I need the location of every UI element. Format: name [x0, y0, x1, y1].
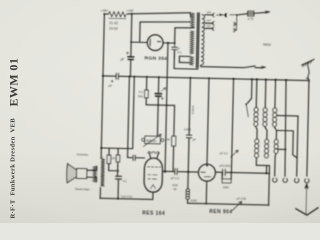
wire: L4a tap to terminal 3	[275, 116, 298, 177]
wire: switch drop	[247, 79, 252, 103]
capacitor C5 electrolytic	[157, 77, 160, 105]
V1 top neck	[149, 153, 158, 159]
voltage selector link plug	[233, 15, 236, 32]
wire: grid box drop	[156, 105, 159, 136]
resistor R4 box	[109, 148, 120, 171]
wire: left frame vertical	[100, 14, 104, 198]
node: bus junction at frame	[102, 75, 104, 77]
choke L1 winding	[186, 189, 190, 192]
wire: mains line 2 from transformer bottom	[201, 66, 244, 68]
wire: cathode drop V_cath	[173, 105, 176, 136]
wire: L4a lower tap link	[276, 130, 298, 157]
wire: L2b bottom to bus2 drop	[255, 158, 269, 205]
wire: grid leak legs	[222, 172, 231, 179]
wire: coil 1 drop	[255, 79, 258, 107]
speaker driver box	[76, 168, 87, 178]
socket contact 127	[212, 21, 214, 25]
node: junction dot right of R1	[131, 13, 133, 15]
paper shading overlay	[0, 150, 320, 223]
bottom bus left	[100, 198, 153, 199]
mains connector arrows	[216, 13, 236, 17]
wire: grid wire to tuning	[231, 172, 269, 175]
wire: V1 cathode to bottom bus	[152, 192, 154, 199]
coil L3b	[265, 139, 269, 144]
transformer T1 left winding (zigzag sections)	[191, 13, 195, 28]
capacitor C10 in choke feed	[186, 135, 192, 138]
V1 pin bumps	[148, 152, 159, 154]
node: junction dot at loopB leg	[174, 42, 176, 44]
bottom bus 2	[188, 203, 269, 205]
wire: mains line 1 with arrow	[254, 12, 266, 14]
speaker horn	[67, 164, 77, 183]
coil L4b	[274, 139, 278, 144]
wire: rectifier anode wire left	[131, 41, 147, 43]
U1 anode plate dash	[157, 41, 160, 43]
coil L3a	[263, 108, 267, 113]
U1 cathode bar	[149, 39, 151, 46]
V1 inner electrode marks	[148, 175, 158, 179]
fuse F1	[248, 11, 254, 16]
rail: cathode rail lower-left	[101, 147, 132, 150]
capacitor C4 series in bus	[116, 73, 118, 79]
terminal post 2	[283, 178, 287, 182]
coil L2a antenna coil	[254, 107, 258, 112]
node: junction dot V2 to rectifier wire	[130, 41, 132, 43]
wire: V2 vertical from R1 down to HT bus	[130, 14, 131, 77]
wire: inter-row links	[256, 127, 277, 140]
wire: L4b to terminal 1	[275, 154, 276, 176]
wire: V3 from bus to grid wire	[231, 79, 233, 173]
wire: speaker leads	[87, 166, 97, 182]
wire: rectifier anode wire right	[163, 42, 175, 44]
wire: middle vertical HT to anode rail	[165, 43, 168, 172]
value label under R1	[109, 17, 126, 19]
wire: loop A (filament loop)	[140, 12, 191, 44]
capacitor C9 grid cap vertical plates	[223, 169, 226, 175]
wave switch contact arm	[245, 103, 247, 105]
capacitor C7 grid coupling	[133, 155, 135, 160]
earth chevron	[296, 207, 318, 215]
capacitor C8 on anode rail	[175, 169, 177, 175]
wire: choke feed vertical	[188, 78, 191, 189]
wire: loop-B leg down and transformer bottom close	[174, 50, 198, 69]
variable cap arrow at bus2 with label	[232, 201, 242, 210]
wire: tap 127	[205, 22, 213, 24]
resistor R1 (anode feed, zigzag)	[108, 12, 126, 17]
antenna symbol	[302, 59, 314, 65]
V1 grid dashes	[147, 166, 161, 168]
transformer T1 core lines	[196, 13, 199, 68]
wire: terminal 2 long drop	[284, 80, 287, 176]
wire: anode rail	[162, 170, 198, 173]
coil L2b	[255, 139, 259, 144]
socket contact 110	[212, 27, 214, 31]
terminal post 3	[294, 179, 298, 183]
switch S1 mains	[244, 66, 262, 68]
capacitor C2 electrolytic in V2	[128, 57, 134, 60]
wire: coil 3 drop	[274, 80, 277, 108]
resistor R7 grid leak box	[222, 179, 231, 183]
detector tube V2 REN904 envelope	[198, 164, 215, 181]
resistor R6 grid box with pot arrow	[145, 136, 161, 144]
polarity + for C2	[126, 52, 128, 54]
coil L4a	[273, 108, 277, 113]
earth arrow into terminal 4	[304, 183, 308, 214]
wire: tap 110	[205, 27, 213, 29]
polarity + for C5	[161, 97, 163, 99]
rectifier tube U1 RGN354 envelope	[147, 35, 163, 51]
output transformer T2 secondary	[93, 166, 97, 182]
output tube V1 RES164 envelope	[144, 158, 163, 192]
socket contact 220	[212, 13, 214, 17]
wire: L4b link to terminal 2 stem	[278, 148, 286, 150]
wire: antenna vertical to terminal 4	[307, 81, 309, 177]
resistor R5 box	[117, 148, 120, 176]
wire: to fuse	[237, 13, 248, 15]
wire: coil 2 drop	[264, 80, 267, 108]
capacitor C3 on loop-B leg	[171, 43, 177, 58]
transformer T1 right winding (loops)	[201, 15, 205, 65]
capacitor C6	[115, 176, 121, 179]
output transformer T2 primary on frame	[100, 158, 104, 186]
V2 grid dash	[201, 172, 211, 177]
wire: top HT line with rise to transformer	[104, 11, 190, 16]
resistor R2 (50k) box	[145, 77, 148, 105]
arrow mark above C5	[161, 88, 166, 92]
resistor R3 cathode box	[172, 136, 176, 146]
wire: tap 220	[205, 14, 213, 16]
terminal post 4	[305, 179, 309, 183]
wire: bottom link of R2/C5	[146, 104, 174, 107]
node: junction dot left of R1	[103, 13, 105, 15]
wire: grid wire tube2 to cap	[215, 171, 231, 173]
wire: detector anode vertical from bus	[207, 78, 209, 164]
wire: V2 cathode drop	[205, 181, 208, 203]
regen arrow with label 0,2	[231, 150, 239, 157]
winding S3 bracket link	[179, 56, 190, 62]
wire: loop B to transformer winding	[175, 27, 194, 43]
wire: V2 below bus to grid coupling	[128, 76, 134, 157]
polarity and uF label for C4	[111, 80, 113, 82]
wire: main bus (grid/antenna rail)	[103, 76, 309, 81]
wire: V2c drop to cathode rail	[133, 77, 135, 149]
terminal post 1	[273, 178, 277, 182]
